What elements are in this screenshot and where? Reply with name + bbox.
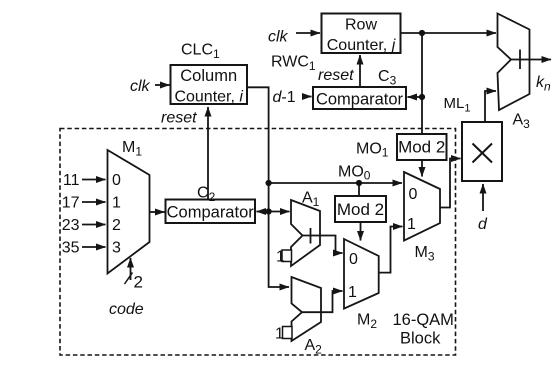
box comparator C2 bbox=[166, 200, 256, 224]
wire A2 output to M2 input 1 bbox=[302, 291, 343, 312]
wire d into multiplier bbox=[482, 184, 484, 211]
junction dot node i at C2/A1 bbox=[266, 208, 272, 214]
dashed 16-QAM block boundary bbox=[60, 129, 456, 356]
wire M1 input 23 bbox=[82, 224, 106, 226]
svg-text:MO0: MO0 bbox=[338, 164, 371, 183]
wire Mod 2 MO0 select into M2 bbox=[360, 222, 362, 241]
wire M3 output to multiplier bbox=[440, 159, 461, 208]
wire A3 output kn with plus stroke bbox=[511, 59, 551, 61]
svg-text:16-QAM: 16-QAM bbox=[393, 311, 454, 329]
box comparator C3 bbox=[313, 87, 406, 109]
junction dot node j top bbox=[419, 30, 425, 36]
junction dot node j at C3 bbox=[419, 94, 425, 100]
wire d-1 into C3 bbox=[303, 96, 312, 98]
mux M3 body bbox=[404, 172, 440, 241]
svg-text:M3: M3 bbox=[415, 244, 435, 264]
wire M1 select code bbox=[130, 258, 132, 280]
adder A3 body bbox=[498, 14, 530, 111]
svg-text:3: 3 bbox=[112, 240, 121, 257]
svg-text:1: 1 bbox=[275, 326, 284, 343]
svg-text:1: 1 bbox=[276, 249, 285, 266]
svg-text:A2: A2 bbox=[305, 337, 323, 357]
wire M1 input 11 bbox=[82, 179, 106, 181]
svg-text:Counter, j: Counter, j bbox=[327, 37, 396, 54]
multiply cross stroke 2 bbox=[473, 144, 493, 163]
box Mod 2 MO0 bbox=[335, 196, 386, 222]
svg-text:RWC1: RWC1 bbox=[271, 54, 316, 74]
svg-text:2: 2 bbox=[134, 273, 143, 292]
wire C3 output up to Row Counter reset bbox=[359, 55, 361, 87]
wire node j vertical down to Mod 2 MO1 bbox=[421, 33, 423, 134]
wire MO0 line to M3 input 0 bbox=[269, 182, 402, 184]
svg-text:Column: Column bbox=[180, 67, 237, 85]
wire M1 input 17 bbox=[82, 201, 106, 203]
svg-text:Comparator: Comparator bbox=[316, 91, 404, 109]
adder A2 body bbox=[292, 277, 322, 341]
constant 1 box of A2 bbox=[283, 327, 293, 339]
constant 1 box of A1 bbox=[282, 250, 292, 262]
wire clk to Row Counter bbox=[296, 32, 320, 34]
wire node i to C2 right input bbox=[257, 211, 269, 213]
wire Row Counter output to A3 bbox=[401, 32, 497, 34]
svg-text:code: code bbox=[109, 301, 144, 318]
svg-text:M2: M2 bbox=[357, 312, 377, 332]
svg-text:23: 23 bbox=[62, 217, 80, 234]
svg-text:11: 11 bbox=[63, 172, 80, 189]
junction dot MO0 branch bbox=[356, 180, 362, 186]
svg-text:C3: C3 bbox=[378, 68, 397, 88]
svg-text:clk: clk bbox=[268, 29, 289, 46]
mux M1 body bbox=[108, 150, 150, 274]
box Column Counter CLC1 bbox=[171, 65, 248, 104]
plus vertical stroke of A3 bbox=[519, 50, 521, 70]
adder A1 body bbox=[291, 200, 320, 266]
svg-text:reset: reset bbox=[318, 67, 354, 84]
svg-text:d-1: d-1 bbox=[273, 89, 296, 106]
box Row Counter RWC1 bbox=[322, 14, 401, 54]
svg-text:17: 17 bbox=[62, 195, 80, 212]
svg-text:Comparator: Comparator bbox=[167, 204, 255, 222]
svg-text:CLC1: CLC1 bbox=[181, 42, 220, 62]
svg-text:2: 2 bbox=[112, 217, 121, 234]
wire node i to A1 input bbox=[269, 211, 290, 213]
wire M2 output to M3 input 1 bbox=[379, 227, 403, 273]
mux M2 body bbox=[344, 239, 379, 309]
svg-text:kn: kn bbox=[536, 74, 551, 94]
wire M1 input 35 bbox=[82, 246, 106, 248]
svg-text:C2: C2 bbox=[197, 185, 216, 205]
multiply cross stroke 1 bbox=[473, 144, 493, 163]
svg-text:1: 1 bbox=[348, 284, 357, 301]
svg-text:d: d bbox=[478, 216, 488, 233]
svg-text:A1: A1 bbox=[302, 190, 320, 210]
svg-text:1: 1 bbox=[407, 216, 416, 233]
svg-text:0: 0 bbox=[112, 172, 121, 189]
wire Column Counter output down and into A2 bbox=[247, 87, 289, 287]
svg-text:0: 0 bbox=[409, 186, 418, 203]
wire A1 output to M2 input 0 with plus stroke bbox=[303, 236, 343, 254]
box multiplier ML1 bbox=[462, 122, 502, 181]
wire C2 output up to Column Counter reset bbox=[207, 107, 209, 199]
svg-text:ML1: ML1 bbox=[444, 95, 471, 115]
wire M1 output to C2 bbox=[150, 211, 165, 213]
wire node j into C3 right input bbox=[408, 96, 423, 98]
svg-text:Row: Row bbox=[345, 17, 377, 34]
svg-text:1: 1 bbox=[112, 195, 121, 212]
wire MO0 branch into Mod 2 bbox=[358, 183, 360, 196]
svg-text:clk: clk bbox=[130, 78, 151, 95]
wire multiplier ML1 output to A3 lower input bbox=[485, 91, 496, 122]
bus slash on code select bbox=[125, 273, 133, 285]
svg-text:35: 35 bbox=[62, 240, 80, 257]
plus vertical stroke of A1 bbox=[310, 228, 312, 244]
junction dot node i on MO0 line bbox=[266, 180, 272, 186]
svg-text:reset: reset bbox=[161, 110, 197, 127]
svg-text:MO1: MO1 bbox=[356, 141, 389, 160]
wire clk to Column Counter bbox=[155, 84, 170, 86]
svg-text:A3: A3 bbox=[513, 112, 531, 132]
svg-text:Block: Block bbox=[400, 330, 441, 348]
svg-text:Mod 2: Mod 2 bbox=[337, 200, 384, 219]
svg-text:Mod 2: Mod 2 bbox=[398, 138, 445, 157]
box Mod 2 MO1 bbox=[397, 134, 447, 160]
wire Mod 2 MO1 select into M3 bbox=[421, 160, 423, 177]
svg-text:0: 0 bbox=[349, 251, 358, 268]
svg-text:Counter, i: Counter, i bbox=[174, 89, 243, 106]
svg-text:M1: M1 bbox=[122, 139, 142, 159]
